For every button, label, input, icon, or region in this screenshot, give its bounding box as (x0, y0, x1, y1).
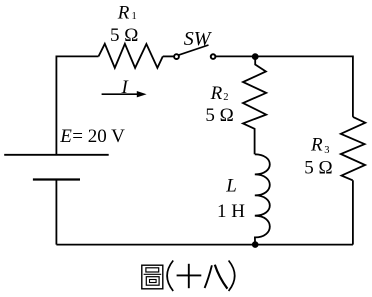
wire top-left segment (56, 55, 98, 57)
svg-text:5 Ω: 5 Ω (205, 105, 233, 126)
battery E plate long (positive) (4, 154, 109, 156)
svg-text:E: E (59, 126, 72, 147)
svg-text:R: R (210, 83, 223, 104)
caption glyph ten (177, 264, 202, 288)
switch SW (174, 45, 215, 59)
battery E plate short (negative) (33, 178, 80, 180)
svg-text:= 20 V: = 20 V (72, 126, 125, 147)
caption figure 18 (142, 261, 235, 292)
wire R1 to switch (163, 55, 174, 57)
node top junction (252, 53, 259, 60)
wire bottom (56, 244, 353, 246)
svg-text:R: R (310, 135, 323, 156)
svg-text:1 H: 1 H (217, 201, 245, 222)
wire left side lower (55, 180, 57, 245)
node bottom junction (252, 241, 259, 248)
resistor R3 (341, 117, 366, 180)
svg-text:3: 3 (324, 145, 329, 156)
wire left side upper (55, 56, 57, 155)
resistor R2 (243, 57, 266, 155)
label R2 (210, 83, 229, 104)
inductor L (255, 154, 270, 244)
svg-text:R: R (117, 2, 130, 23)
caption open paren (167, 261, 173, 292)
wire right side lower (352, 180, 354, 244)
caption glyph eight (205, 265, 228, 289)
svg-text:5 Ω: 5 Ω (304, 158, 332, 179)
label R3 (310, 135, 329, 156)
svg-text:L: L (225, 176, 237, 197)
svg-text:2: 2 (223, 92, 228, 103)
current arrow I (102, 91, 147, 97)
caption close paren (229, 261, 235, 292)
svg-text:SW: SW (184, 28, 213, 50)
label R1 (117, 2, 137, 23)
wire switch to top-right corner (215, 55, 353, 57)
wire right side upper (352, 56, 354, 117)
label E = 20 V (59, 126, 125, 147)
svg-text:1: 1 (132, 11, 137, 22)
svg-text:5 Ω: 5 Ω (110, 25, 138, 46)
resistor R1 (99, 44, 163, 68)
caption glyph tu (figure) (142, 265, 163, 289)
